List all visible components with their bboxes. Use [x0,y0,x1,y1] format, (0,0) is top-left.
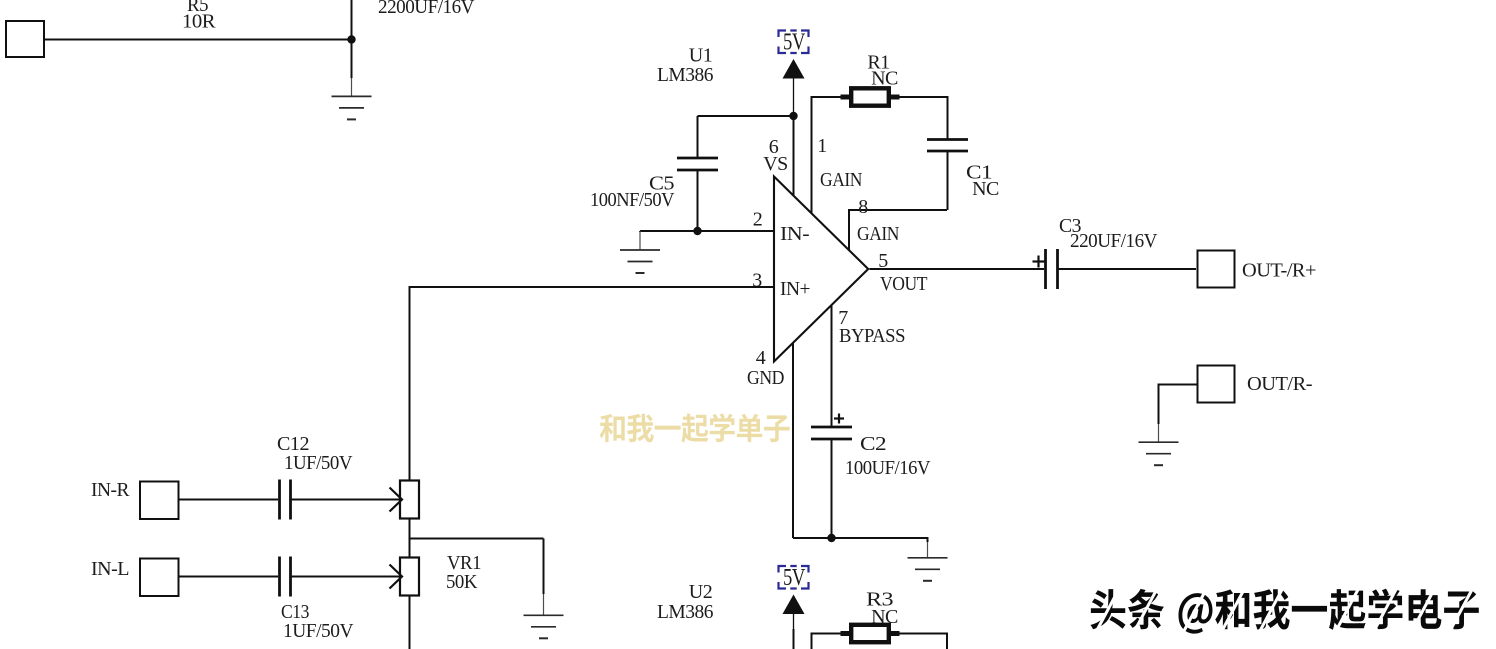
connector IN-L [140,559,179,597]
wire IN-L to C13 [180,576,279,578]
capacitor C5 [677,157,718,160]
capacitor C2 [811,426,852,429]
svg-text:U2: U2 [689,581,712,603]
svg-text:GND: GND [747,367,784,389]
wire pin7 BYPASS to C2 [831,305,833,427]
svg-text:8: 8 [858,196,868,218]
svg-text:2200UF/16V: 2200UF/16V [378,0,475,18]
ground G2 [639,231,641,232]
wire IN-R to C12 [180,499,279,501]
svg-text:OUT-/R+: OUT-/R+ [1242,260,1316,282]
watermark bottom black text [1090,589,1478,634]
svg-text:50K: 50K [446,571,478,593]
capacitor C1 [927,138,968,141]
wire R1 right to C1 [900,96,948,98]
arrow into VR1 upper [390,488,403,512]
wire R3 right [900,633,948,635]
capacitor C2 polarity + [834,417,844,419]
ground G1 [351,78,353,96]
resistor R3 [841,631,900,636]
svg-text:IN-R: IN-R [91,479,130,501]
wire R5 net horizontal [45,39,352,41]
capacitor C3 [1044,249,1047,289]
watermark slashes [1096,587,1120,632]
connector IN-R [140,482,179,520]
node junction C2/gnd rail [827,534,835,542]
node junction 5V/C5 [789,112,797,120]
power 5V (U1) [779,31,809,54]
wire C3 to OUT-/R+ [1058,268,1197,270]
svg-text:3: 3 [752,270,762,292]
ground G5 [1158,424,1160,442]
svg-text:LM386: LM386 [657,64,713,86]
ground G4 [543,539,545,595]
svg-text:GAIN: GAIN [857,223,899,245]
wire pin4 GND down [792,343,794,538]
wire C5 top stub [697,116,699,158]
svg-text:5V: 5V [783,565,806,591]
svg-text:VOUT: VOUT [880,273,927,295]
watermark pale text [600,413,790,442]
ground G3 [927,537,929,540]
svg-text:OUT/R-: OUT/R- [1247,373,1312,395]
resistor R1 [841,95,900,100]
connector OUT/R- [1198,366,1235,403]
wire C4 vertical [351,0,353,78]
svg-text:GAIN: GAIN [820,169,862,191]
svg-text:10R: 10R [182,11,216,33]
potentiometer VR1 lower body [400,558,419,596]
capacitor C12 [278,480,281,520]
wire 5V (U2) down [793,614,795,631]
wire OUT/R- to ground [1159,384,1197,386]
node junction R5/C4 [347,35,355,43]
node junction C5/IN- [693,227,701,235]
wire gnd rail [793,537,928,539]
wire VR1 mid [409,519,411,558]
svg-text:VS: VS [763,153,788,175]
svg-text:1: 1 [817,135,827,157]
wire C12 to VR1 [291,499,401,501]
svg-text:NC: NC [871,606,898,628]
capacitor C3 polarity + [1033,260,1045,262]
svg-text:2: 2 [753,209,763,231]
wire VR1 bottom down [409,596,411,649]
wire VR1 wiper rail [410,538,544,540]
svg-text:100NF/50V: 100NF/50V [590,189,675,211]
svg-text:IN+: IN+ [780,278,810,300]
capacitor C13 [278,557,281,597]
wire pin3 IN+ [410,286,774,288]
wire pin2 IN- [640,230,773,232]
wire pin1 to R1 left [812,96,841,98]
wire 5V to pin6 [793,79,795,115]
op-amp U1 triangle [774,177,868,362]
connector OUT-/R+ [1198,251,1235,288]
wire R3 left [812,633,841,635]
wire C5 bottom stub [697,170,699,231]
svg-text:BYPASS: BYPASS [839,325,905,347]
svg-text:NC: NC [972,178,999,200]
power 5V (U2) [779,566,809,589]
svg-text:4: 4 [756,347,766,369]
svg-text:C2: C2 [860,433,886,455]
connector J1 (R5 net) [6,21,44,57]
svg-text:5V: 5V [783,30,806,56]
svg-text:IN-L: IN-L [91,558,129,580]
svg-text:100UF/16V: 100UF/16V [845,457,931,479]
wire C13 to VR1 [291,576,401,578]
wire IN+ down to VR1 [409,286,411,481]
svg-text:LM386: LM386 [657,601,713,623]
svg-text:1UF/50V: 1UF/50V [284,452,353,474]
wire C5 top horizontal [698,115,794,117]
svg-text:NC: NC [871,68,898,90]
svg-text:220UF/16V: 220UF/16V [1070,230,1158,252]
potentiometer VR1 upper body [400,481,419,519]
wire C1 bottom to pin8 [947,151,949,210]
svg-text:1UF/50V: 1UF/50V [283,620,354,642]
svg-text:IN-: IN- [780,223,809,245]
wire C2 bottom [831,439,833,538]
wire pin5 VOUT [870,268,1045,270]
arrow into VR1 lower [390,565,403,589]
